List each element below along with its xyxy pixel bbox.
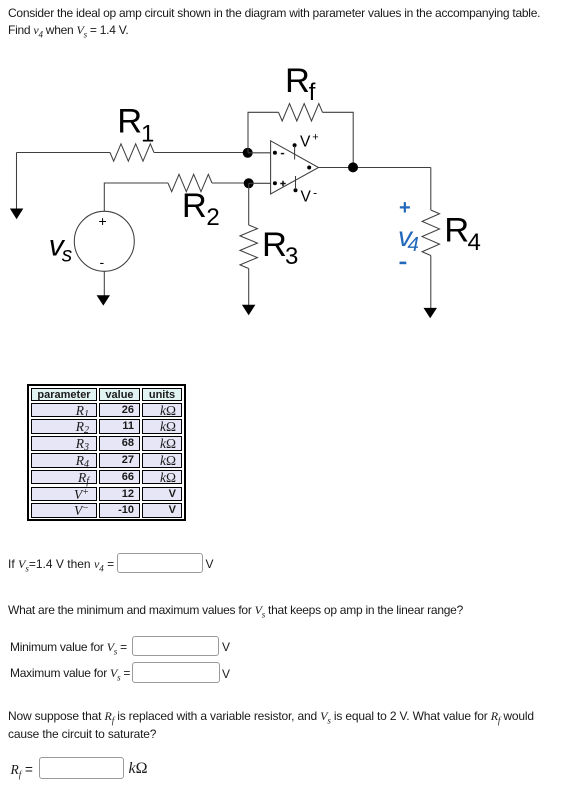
wire: vs bottom to ground bbox=[103, 271, 105, 295]
wire: input node to R1 bbox=[17, 152, 111, 154]
node N1 (inverting input junction) bbox=[243, 148, 253, 158]
label V- supply bbox=[301, 187, 318, 205]
svg-text:R: R bbox=[285, 62, 310, 100]
question 3 bbox=[8, 710, 556, 741]
svg-text:V: V bbox=[300, 133, 311, 150]
wire: R3 to ground bbox=[248, 269, 250, 306]
ground (R3 arrow) bbox=[242, 305, 256, 315]
resistor R1 bbox=[110, 144, 154, 161]
svg-text:R: R bbox=[182, 187, 207, 225]
op-amp U1 bbox=[248, 141, 319, 194]
question 2 bbox=[8, 602, 463, 623]
wire: N2 down to R3 bbox=[248, 183, 250, 225]
problem statement bbox=[8, 5, 562, 43]
resistor R3 bbox=[240, 225, 257, 269]
label v4 polarity - bbox=[400, 262, 407, 265]
ground (left arrow) bbox=[10, 209, 23, 220]
svg-text:R: R bbox=[117, 103, 142, 141]
wire: R4 to ground bbox=[430, 256, 432, 309]
label R1 bbox=[117, 103, 154, 148]
svg-text:R: R bbox=[444, 212, 469, 250]
svg-text:+: + bbox=[99, 213, 107, 229]
svg-text:f: f bbox=[309, 79, 316, 106]
svg-text:1: 1 bbox=[141, 120, 154, 147]
label R3 bbox=[262, 226, 298, 270]
svg-text:R: R bbox=[262, 226, 287, 264]
svg-text:3: 3 bbox=[285, 243, 298, 270]
ground (R4 arrow) bbox=[424, 308, 438, 318]
node N2 (noninverting input junction) bbox=[244, 178, 254, 188]
svg-text:4: 4 bbox=[408, 233, 419, 256]
svg-text:2: 2 bbox=[206, 204, 219, 231]
resistor R2 bbox=[168, 174, 212, 191]
ground (vs arrow) bbox=[97, 295, 110, 305]
label vs polarity + bbox=[99, 213, 107, 229]
label Rf bbox=[285, 62, 316, 106]
svg-text:-: - bbox=[313, 187, 317, 199]
label R2 bbox=[182, 187, 220, 231]
wire: output corner down to R4 bbox=[430, 168, 432, 211]
svg-text:s: s bbox=[62, 244, 73, 267]
label vs bbox=[49, 230, 73, 267]
wire: Rf to output node bbox=[323, 112, 354, 167]
wire: R1 to inverting node bbox=[154, 152, 248, 154]
question 1 bbox=[8, 556, 114, 577]
resistor Rf bbox=[279, 104, 323, 121]
circuit schematic svg bbox=[0, 0, 562, 360]
parameter table bbox=[27, 384, 186, 521]
wire: feedback left vertical from N1 bbox=[248, 112, 279, 153]
wire: R2 to noninverting node bbox=[212, 182, 249, 184]
node N3 (output junction) bbox=[348, 162, 358, 172]
svg-text:-: - bbox=[100, 254, 105, 270]
wire: op-amp output to R4 bbox=[319, 167, 431, 169]
wire: vs top to R2 bbox=[104, 183, 168, 211]
label v4 bbox=[398, 221, 419, 256]
label vs polarity - bbox=[100, 254, 105, 270]
source Vs circle bbox=[74, 211, 134, 271]
svg-text:V: V bbox=[301, 189, 312, 206]
svg-text:4: 4 bbox=[468, 229, 481, 256]
label R4 bbox=[444, 212, 481, 256]
resistor R4 bbox=[422, 210, 439, 256]
label v4 polarity + bbox=[399, 197, 411, 219]
wire: left ground branch down from R1 input bbox=[16, 153, 18, 210]
svg-text:+: + bbox=[399, 197, 411, 219]
label V+ supply bbox=[300, 132, 319, 151]
svg-text:+: + bbox=[312, 132, 318, 144]
